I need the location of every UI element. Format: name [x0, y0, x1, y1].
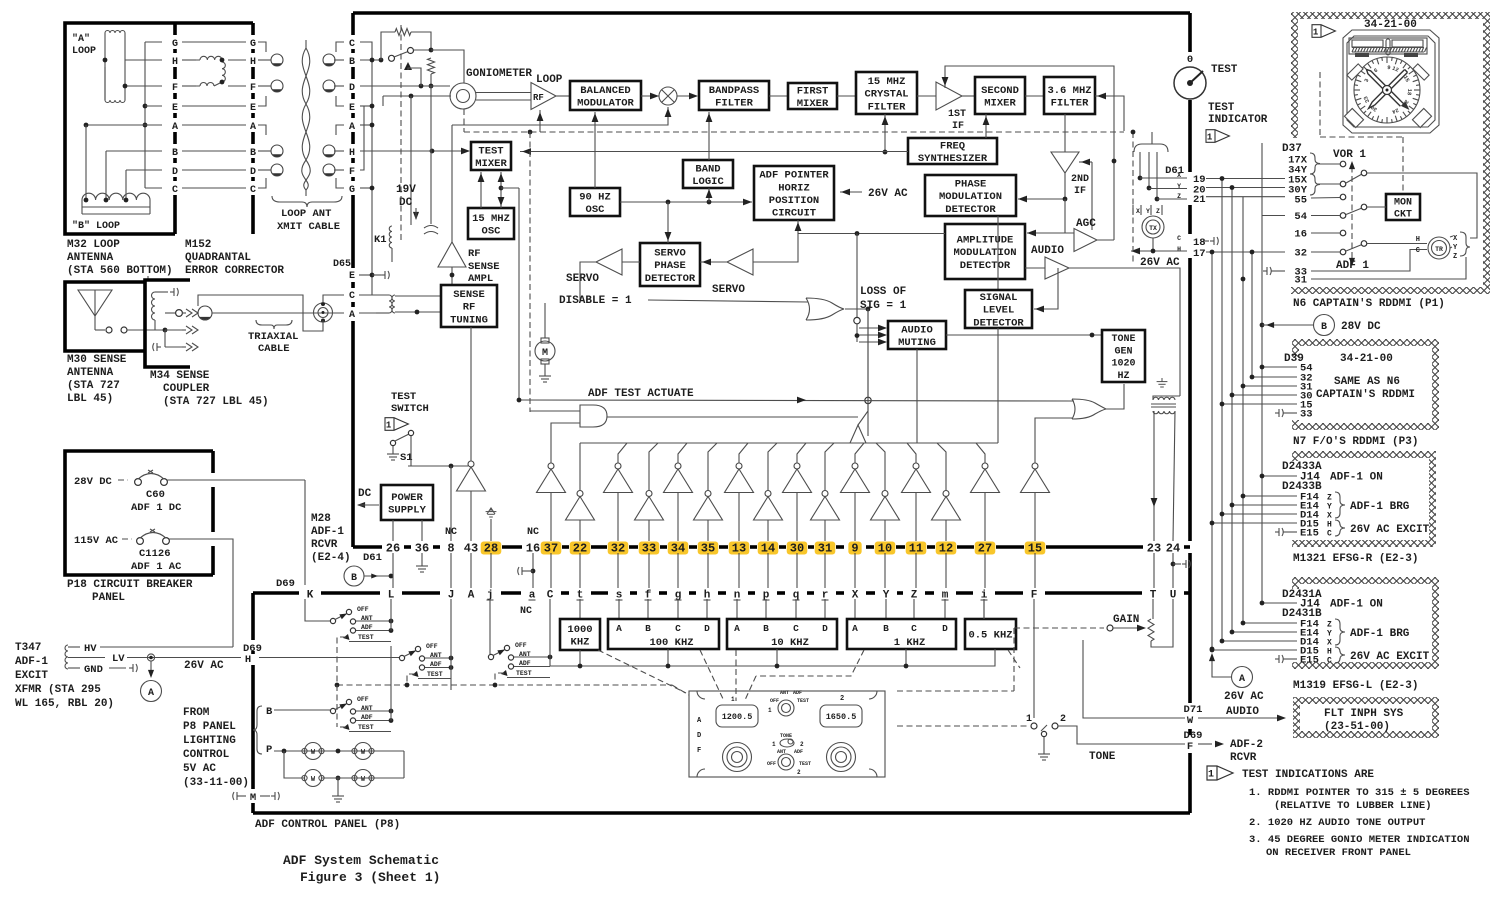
function switch 2	[778, 754, 794, 770]
wire fm to crystal filter	[837, 95, 856, 97]
31 wire to tr xyz	[1311, 257, 1466, 279]
wire mixer to bandpass	[677, 95, 697, 97]
svg-text:1: 1	[1208, 770, 1214, 781]
svg-text:F: F	[697, 747, 701, 755]
svg-text:Z: Z	[1327, 621, 1332, 630]
svg-text:WL 165, RBL 20): WL 165, RBL 20)	[15, 698, 114, 710]
svg-text:D: D	[697, 732, 701, 740]
90hz down to servo phase det	[667, 202, 669, 243]
audio muting	[888, 321, 946, 349]
svg-text:D: D	[250, 167, 256, 178]
svg-text:G: G	[250, 39, 256, 50]
audio line to border	[1083, 640, 1185, 718]
svg-text:QUADRANTAL: QUADRANTAL	[185, 252, 251, 264]
svg-text:MODULATION: MODULATION	[939, 191, 1002, 203]
test indicator meter	[1174, 67, 1206, 99]
transformer secondary down	[1153, 411, 1155, 541]
dashed to compass	[1319, 72, 1321, 137]
servo phase detector	[640, 243, 700, 286]
fan stems tall	[618, 443, 627, 463]
svg-text:GONIOMETER: GONIOMETER	[466, 68, 532, 80]
svg-text:"A": "A"	[72, 33, 90, 45]
svg-text:M1321 EFSG-R (E2-3): M1321 EFSG-R (E2-3)	[1293, 553, 1418, 565]
dashed column x530	[529, 132, 531, 412]
svg-text:26V AC: 26V AC	[184, 660, 224, 672]
svg-text:D: D	[942, 623, 948, 634]
F column	[1033, 599, 1035, 718]
svg-text:FILTER: FILTER	[868, 101, 907, 113]
rf sense injection to mixer	[452, 107, 668, 125]
s1 switch	[390, 440, 395, 445]
svg-text:ADF: ADF	[793, 690, 802, 696]
phase modulation detector	[925, 175, 1016, 216]
capacitor	[430, 86, 432, 224]
svg-text:26V AC: 26V AC	[1140, 257, 1180, 269]
inverter 43 on test line	[468, 461, 474, 467]
column 8	[450, 466, 452, 541]
svg-text:X: X	[1327, 639, 1332, 648]
svg-text:GND: GND	[84, 664, 103, 676]
svg-text:C60: C60	[146, 489, 165, 501]
svg-text:CKT: CKT	[1394, 210, 1412, 221]
FLT INPH hatched border	[1293, 697, 1439, 704]
loss of sig or gate	[806, 298, 844, 320]
tx synchro bracket	[1134, 144, 1168, 152]
resistor to goniometer	[428, 58, 435, 74]
N7 hatched border	[1292, 339, 1439, 346]
svg-text:1: 1	[768, 707, 772, 714]
rf ampl base down	[451, 267, 453, 285]
svg-text:ADF 1 AC: ADF 1 AC	[131, 561, 182, 573]
svg-text:CRYSTAL: CRYSTAL	[864, 89, 908, 101]
90hz output bus	[620, 201, 752, 203]
M32 internal wiring	[125, 59, 162, 61]
svg-text:TEST: TEST	[516, 670, 532, 677]
rf sense ampl	[438, 242, 466, 267]
test bus y466	[408, 465, 468, 467]
svg-text:55: 55	[1294, 195, 1307, 207]
svg-text:A: A	[250, 122, 256, 133]
brace stub wires	[1318, 163, 1340, 165]
svg-text:SWITCH: SWITCH	[391, 403, 429, 415]
ground over pin 28	[487, 508, 495, 514]
svg-text:26V AC: 26V AC	[868, 188, 908, 200]
cap on a16 column	[531, 569, 536, 574]
svg-text:SAME AS N6: SAME AS N6	[1334, 376, 1400, 388]
servo amp right	[727, 249, 753, 275]
svg-text:OSC: OSC	[482, 226, 502, 238]
svg-text:TEST INDICATIONS ARE: TEST INDICATIONS ARE	[1242, 769, 1374, 781]
M152 quadrantal error corrector box	[175, 21, 253, 25]
svg-text:MIXER: MIXER	[984, 98, 1016, 110]
svg-text:MODULATION: MODULATION	[953, 247, 1016, 259]
c pin elbow to triax	[323, 295, 344, 303]
svg-text:FILTER: FILTER	[715, 98, 754, 110]
svg-text:ADF TEST ACTUATE: ADF TEST ACTUATE	[588, 388, 694, 400]
svg-text:Z: Z	[1327, 494, 1332, 503]
svg-text:(STA 560 BOTTOM): (STA 560 BOTTOM)	[67, 265, 173, 277]
15x30y arm to tr xyz	[1367, 173, 1477, 238]
54 wire up to compass	[1261, 143, 1263, 216]
svg-text:(STA 727 LBL 45): (STA 727 LBL 45)	[163, 396, 269, 408]
svg-text:E: E	[349, 271, 355, 282]
svg-text:ADF-1 BRG: ADF-1 BRG	[1350, 628, 1410, 640]
svg-text:M32 LOOP: M32 LOOP	[67, 239, 120, 251]
svg-text:TR: TR	[1435, 246, 1443, 253]
servo out	[580, 262, 596, 300]
dashed goniometer tail	[463, 109, 465, 132]
M30 sense antenna box	[65, 282, 145, 351]
svg-text:LBL 45): LBL 45)	[67, 393, 113, 405]
M30 antenna symbol	[78, 290, 112, 316]
tr synchro	[1428, 237, 1450, 259]
inverter 22 stem	[579, 443, 581, 490]
rddmi instrument bezel	[1343, 30, 1439, 133]
svg-text:1: 1	[386, 420, 392, 430]
gang dashed bus	[337, 684, 672, 686]
svg-text:ADF-1 ON: ADF-1 ON	[1330, 472, 1383, 484]
svg-text:CIRCUIT: CIRCUIT	[772, 208, 816, 220]
svg-text:AGC: AGC	[1076, 218, 1096, 230]
or gate output down	[845, 308, 868, 310]
N6 hatched border	[1291, 12, 1490, 19]
svg-text:1020: 1020	[1111, 359, 1135, 370]
svg-text:2ND: 2ND	[1071, 174, 1089, 185]
T347 transformer coil	[65, 645, 68, 669]
receiver box bottom border	[353, 545, 382, 549]
svg-text:N7 F/O'S RDDMI (P3): N7 F/O'S RDDMI (P3)	[1293, 436, 1418, 448]
svg-text:TEST: TEST	[478, 145, 503, 157]
agc feedback top wire	[945, 66, 1114, 240]
90 hz osc	[570, 188, 620, 216]
balanced modulator	[570, 81, 641, 110]
svg-text:B: B	[351, 573, 357, 584]
svg-text:MUTING: MUTING	[898, 337, 936, 349]
svg-text:2. 1020 HZ AUDIO TONE OUTPUT: 2. 1020 HZ AUDIO TONE OUTPUT	[1249, 817, 1425, 829]
row wires d37	[1206, 178, 1285, 180]
pin H wire to test mixer	[360, 150, 469, 152]
short inverters	[577, 491, 583, 497]
svg-text:A: A	[852, 623, 858, 634]
svg-text:LV: LV	[112, 653, 125, 665]
svg-text:ADF CONTROL PANEL (P8): ADF CONTROL PANEL (P8)	[255, 819, 400, 831]
svg-text:ADF 1: ADF 1	[1336, 260, 1369, 272]
svg-text:10 KHZ: 10 KHZ	[771, 637, 809, 649]
svg-text:F: F	[1187, 741, 1193, 753]
svg-text:G: G	[349, 185, 355, 196]
vor adf selector dashed arrow	[1351, 163, 1353, 258]
svg-text:AMPLITUDE: AMPLITUDE	[957, 234, 1014, 246]
triangle tap	[404, 62, 412, 70]
svg-text:NC: NC	[445, 527, 457, 538]
svg-text:IF: IF	[1074, 186, 1086, 197]
svg-text:D37: D37	[1282, 143, 1302, 155]
svg-text:RF: RF	[468, 248, 481, 260]
svg-text:C: C	[1177, 235, 1181, 242]
svg-text:D: D	[172, 167, 178, 178]
wire 3.6 out	[1095, 96, 1124, 131]
svg-text:M: M	[542, 348, 548, 359]
resistor network top	[381, 32, 395, 60]
knob 1	[723, 743, 752, 772]
svg-text:H: H	[1327, 648, 1332, 657]
svg-text:A: A	[172, 122, 178, 133]
svg-text:Z: Z	[1453, 253, 1457, 261]
svg-text:BANDPASS: BANDPASS	[709, 85, 759, 97]
svg-text:CABLE: CABLE	[258, 343, 290, 355]
svg-text:EXCIT: EXCIT	[15, 670, 48, 682]
pin M	[233, 792, 241, 800]
svg-text:A: A	[468, 590, 475, 602]
0.5 khz box	[965, 619, 1016, 649]
svg-text:M: M	[250, 792, 256, 804]
svg-text:IF: IF	[952, 121, 964, 132]
svg-text:DISABLE = 1: DISABLE = 1	[559, 295, 632, 307]
inverter 15 stem to or2	[1035, 418, 1072, 463]
compass card	[1354, 57, 1420, 123]
vertical bundle	[1211, 252, 1213, 649]
function switch 1	[778, 700, 794, 716]
svg-text:H: H	[349, 148, 355, 159]
svg-text:(E2-4): (E2-4)	[311, 552, 351, 564]
control panel top border	[253, 591, 299, 595]
wire 2nd if to pmd	[1018, 173, 1065, 199]
circle B 28v dc bottom	[344, 566, 364, 586]
svg-text:C: C	[1327, 657, 1332, 666]
svg-text:RCVR: RCVR	[1230, 752, 1257, 764]
svg-text:E15: E15	[1300, 528, 1319, 540]
svg-text:A: A	[349, 122, 355, 133]
and gate	[580, 405, 607, 427]
1000 khz box	[560, 619, 600, 650]
svg-text:ADF-1 BRG: ADF-1 BRG	[1350, 501, 1410, 513]
heading slot	[1386, 39, 1390, 55]
svg-text:28V DC: 28V DC	[1341, 321, 1381, 333]
svg-text:AUDIO: AUDIO	[1226, 706, 1259, 718]
svg-text:F: F	[349, 167, 355, 178]
svg-text:Y: Y	[1327, 503, 1332, 512]
svg-text:MIXER: MIXER	[475, 158, 507, 170]
svg-text:Y: Y	[1146, 208, 1150, 215]
fan stems short	[649, 443, 658, 490]
svg-text:TUNING: TUNING	[450, 314, 488, 326]
svg-text:ADF 1 DC: ADF 1 DC	[131, 502, 182, 514]
svg-text:16: 16	[1294, 229, 1307, 241]
svg-text:1 KHZ: 1 KHZ	[894, 637, 926, 649]
svg-text:1: 1	[1207, 132, 1213, 142]
goniometer lower line	[383, 95, 451, 97]
svg-text:SUPPLY: SUPPLY	[388, 505, 427, 517]
svg-text:SIGNAL: SIGNAL	[980, 292, 1018, 304]
svg-text:M30 SENSE: M30 SENSE	[67, 354, 127, 366]
svg-text:E15: E15	[1300, 655, 1319, 667]
interpin columns	[392, 553, 394, 588]
svg-text:"B" LOOP: "B" LOOP	[72, 220, 120, 232]
svg-text:CAPTAIN'S RDDMI: CAPTAIN'S RDDMI	[1316, 389, 1415, 401]
freq synthesizer	[908, 138, 997, 164]
svg-text:D69: D69	[276, 578, 295, 590]
svg-text:AMPL: AMPL	[468, 273, 493, 285]
muting feed column	[798, 233, 945, 235]
wire bp to first mixer	[769, 95, 788, 97]
svg-text:100 KHZ: 100 KHZ	[649, 637, 693, 649]
svg-text:HV: HV	[84, 643, 97, 655]
svg-text:1. RDDMI POINTER TO 315 ± 5 DE: 1. RDDMI POINTER TO 315 ± 5 DEGREES	[1249, 787, 1470, 799]
wire rf to balanced modulator	[556, 95, 570, 97]
and output bus	[607, 416, 858, 418]
pin G wire	[360, 187, 372, 189]
svg-text:DETECTOR: DETECTOR	[960, 260, 1011, 272]
svg-text:TONE: TONE	[1111, 334, 1135, 345]
loop ant xmit cable	[258, 59, 271, 61]
inverter 37 stem to and gate	[551, 423, 580, 463]
freq synth to crystal filter	[884, 114, 886, 152]
svg-text:90 HZ: 90 HZ	[579, 191, 611, 203]
svg-text:B: B	[266, 706, 273, 718]
svg-text:B: B	[645, 623, 651, 634]
svg-text:SERVO: SERVO	[566, 273, 599, 285]
svg-text:X: X	[1136, 208, 1140, 215]
svg-text:INDICATOR: INDICATOR	[1208, 114, 1268, 126]
svg-text:OFF: OFF	[770, 698, 779, 704]
switch s1 feed	[305, 599, 330, 621]
freq window 2	[820, 705, 862, 727]
first mixer	[788, 83, 837, 109]
svg-text:H: H	[245, 654, 251, 666]
svg-text:2: 2	[800, 741, 804, 748]
svg-text:B: B	[172, 148, 178, 159]
rotary switch S1	[330, 618, 335, 623]
svg-text:X: X	[1327, 512, 1332, 521]
svg-text:1650.5: 1650.5	[826, 712, 857, 722]
band logic	[683, 160, 733, 188]
svg-text:VOR 1: VOR 1	[1333, 149, 1366, 161]
svg-text:SERVO: SERVO	[712, 284, 745, 296]
svg-text:AUDIO: AUDIO	[901, 324, 933, 336]
svg-text:F: F	[250, 83, 256, 94]
transformer audio output	[1157, 378, 1168, 387]
relay switch contact	[389, 55, 395, 61]
svg-text:GAIN: GAIN	[1113, 614, 1139, 626]
rotary switch S4	[330, 708, 335, 713]
svg-text:KHZ: KHZ	[571, 637, 590, 649]
svg-text:TONE: TONE	[780, 733, 792, 739]
svg-text:1200.5: 1200.5	[722, 712, 753, 722]
svg-text:C: C	[675, 623, 681, 634]
M34 coupler internals	[152, 292, 155, 320]
svg-text:H: H	[1327, 521, 1332, 530]
3.6 mhz filter	[1044, 77, 1095, 114]
svg-text:H: H	[1416, 236, 1420, 244]
svg-text:(33-11-00): (33-11-00)	[183, 777, 249, 789]
svg-text:TEST: TEST	[358, 634, 374, 641]
svg-text:Figure 3 (Sheet 1): Figure 3 (Sheet 1)	[300, 870, 440, 885]
svg-text:LOOP: LOOP	[536, 74, 563, 86]
svg-text:C: C	[172, 185, 178, 196]
svg-text:B: B	[349, 57, 355, 68]
svg-text:NC: NC	[520, 606, 532, 617]
svg-text:P8 PANEL: P8 PANEL	[183, 721, 236, 733]
svg-text:OFF: OFF	[767, 761, 776, 767]
svg-text:21: 21	[1193, 194, 1206, 206]
triax shield route	[198, 295, 323, 331]
svg-text:ON RECEIVER FRONT PANEL: ON RECEIVER FRONT PANEL	[1266, 847, 1411, 859]
braces	[1310, 153, 1320, 174]
svg-text:OFF: OFF	[357, 606, 369, 613]
svg-text:FREQ: FREQ	[940, 140, 965, 152]
control panel bottom border	[253, 811, 1190, 815]
power supply	[381, 485, 433, 520]
15 mhz crystal filter	[856, 72, 917, 114]
svg-text:1: 1	[1026, 714, 1032, 725]
svg-text:ADF: ADF	[794, 749, 803, 755]
svg-text:TEST: TEST	[797, 698, 809, 704]
test indications flag	[1207, 766, 1233, 781]
mon ckt	[1386, 194, 1420, 220]
svg-text:F: F	[172, 83, 178, 94]
dashed fan to panel	[598, 650, 686, 693]
svg-text:FIRST: FIRST	[797, 85, 829, 97]
svg-text:Z: Z	[1156, 208, 1160, 215]
svg-text:C: C	[349, 39, 355, 50]
svg-text:D65: D65	[333, 259, 351, 270]
svg-text:28V DC: 28V DC	[74, 476, 113, 488]
svg-text:COUPLER: COUPLER	[163, 383, 210, 395]
pmd to sld vertical	[997, 216, 999, 290]
svg-text:MIXER: MIXER	[797, 98, 829, 110]
svg-text:P: P	[266, 744, 272, 756]
svg-text:3. 45 DEGREE GONIO METER INDIC: 3. 45 DEGREE GONIO METER INDICATION	[1249, 834, 1470, 846]
test mixer to osc	[480, 172, 482, 208]
dashed box tx	[1132, 132, 1134, 262]
svg-text:34-21-00: 34-21-00	[1364, 19, 1417, 31]
M34 sense coupler box	[145, 276, 148, 280]
svg-text:15 MHZ: 15 MHZ	[868, 76, 906, 88]
amplitude modulation detector	[945, 224, 1025, 279]
tx synchro	[1142, 216, 1164, 238]
svg-text:T347: T347	[15, 642, 41, 654]
svg-text:ADF-1 ON: ADF-1 ON	[1330, 599, 1383, 611]
side slots	[1347, 64, 1429, 80]
rotary switch S3 body	[488, 654, 493, 659]
signal level detector	[965, 290, 1032, 328]
svg-text:PHASE: PHASE	[955, 178, 987, 190]
rotary switch S2	[399, 655, 404, 660]
svg-text:C: C	[1416, 247, 1420, 255]
svg-text:TEST: TEST	[391, 391, 416, 403]
28v dc B circle	[1314, 315, 1335, 336]
control panel right border	[1188, 553, 1192, 703]
svg-text:2: 2	[797, 769, 801, 776]
receiver box left border	[351, 13, 355, 35]
bezel corner diamonds	[1344, 108, 1431, 127]
svg-text:DETECTOR: DETECTOR	[973, 317, 1024, 329]
triaxial cable label	[256, 320, 292, 329]
90hz to balanced modulator	[594, 112, 596, 188]
svg-text:ANTENNA: ANTENNA	[67, 367, 114, 379]
svg-text:ERROR CORRECTOR: ERROR CORRECTOR	[185, 265, 284, 277]
svg-text:TEST: TEST	[799, 761, 811, 767]
svg-text:D: D	[349, 83, 355, 94]
M1319 hatched border	[1292, 577, 1439, 584]
rddmi flag	[1312, 25, 1335, 38]
svg-text:(23-51-00): (23-51-00)	[1324, 721, 1390, 733]
svg-text:B: B	[763, 623, 769, 634]
svg-text:ADF System Schematic: ADF System Schematic	[283, 853, 439, 868]
bracket	[253, 706, 262, 754]
servo amp left	[596, 249, 622, 275]
svg-text:TONE: TONE	[1089, 751, 1116, 763]
